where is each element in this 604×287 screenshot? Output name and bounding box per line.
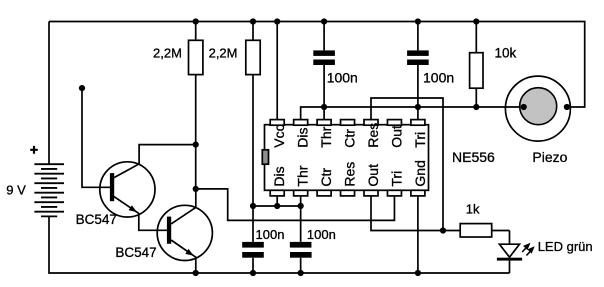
svg-text:BC547: BC547 — [115, 245, 156, 260]
svg-text:2,2M: 2,2M — [153, 45, 182, 60]
svg-text:Dis: Dis — [295, 127, 311, 147]
svg-text:Out: Out — [388, 125, 404, 148]
svg-text:LED grün: LED grün — [538, 239, 593, 254]
svg-text:Tri: Tri — [388, 171, 404, 187]
svg-text:Tri: Tri — [412, 132, 428, 148]
svg-text:100n: 100n — [307, 227, 336, 242]
svg-text:100n: 100n — [423, 69, 454, 85]
svg-text:Dis: Dis — [271, 166, 287, 186]
svg-text:Ctr: Ctr — [342, 129, 358, 148]
svg-text:10k: 10k — [495, 46, 517, 61]
svg-text:NE556: NE556 — [452, 149, 495, 165]
svg-text:Ctr: Ctr — [318, 168, 334, 187]
svg-text:Vcc: Vcc — [271, 124, 287, 147]
svg-text:100n: 100n — [327, 69, 358, 85]
svg-text:Piezo: Piezo — [532, 149, 567, 165]
svg-text:Gnd: Gnd — [412, 160, 428, 186]
svg-text:Thr: Thr — [295, 165, 311, 186]
svg-text:Res: Res — [342, 162, 358, 187]
svg-text:Thr: Thr — [318, 126, 334, 147]
svg-text:Out: Out — [365, 164, 381, 187]
svg-text:2,2M: 2,2M — [209, 45, 238, 60]
svg-text:100n: 100n — [256, 227, 285, 242]
svg-text:Res: Res — [365, 123, 381, 148]
svg-text:9 V: 9 V — [6, 183, 26, 198]
svg-text:BC547: BC547 — [76, 212, 117, 227]
svg-text:1k: 1k — [466, 202, 480, 217]
